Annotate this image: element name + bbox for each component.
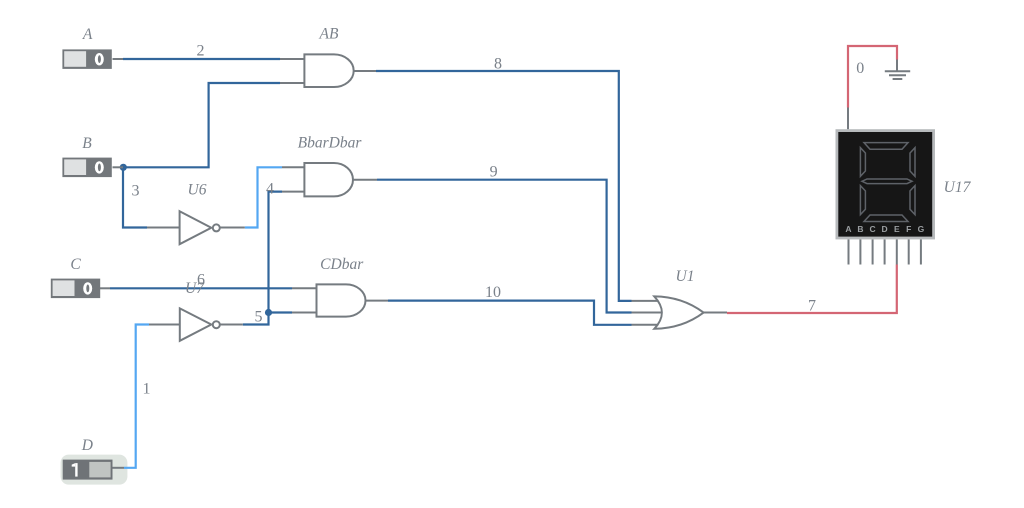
svg-text:BbarDbar: BbarDbar: [298, 135, 363, 152]
svg-text:B: B: [857, 224, 863, 234]
svg-text:D: D: [882, 224, 888, 234]
svg-text:4: 4: [266, 181, 274, 198]
svg-text:6: 6: [197, 272, 205, 289]
svg-text:U6: U6: [188, 182, 207, 199]
svg-text:10: 10: [485, 284, 501, 301]
svg-text:U17: U17: [944, 179, 972, 196]
svg-text:U1: U1: [676, 268, 695, 285]
svg-text:D: D: [81, 437, 93, 454]
svg-text:CDbar: CDbar: [320, 256, 364, 273]
svg-text:B: B: [82, 135, 92, 152]
svg-text:8: 8: [494, 56, 502, 73]
svg-text:G: G: [918, 224, 925, 234]
svg-text:1: 1: [143, 381, 151, 398]
svg-text:C: C: [870, 224, 876, 234]
svg-text:C: C: [70, 256, 81, 273]
svg-text:F: F: [906, 224, 911, 234]
svg-text:A: A: [845, 224, 851, 234]
svg-text:3: 3: [132, 183, 140, 200]
svg-text:A: A: [82, 26, 93, 43]
svg-text:9: 9: [490, 164, 498, 181]
svg-text:E: E: [894, 224, 900, 234]
svg-text:5: 5: [255, 309, 263, 326]
svg-text:0: 0: [856, 60, 864, 77]
svg-text:2: 2: [197, 43, 205, 60]
svg-text:AB: AB: [319, 26, 339, 43]
svg-text:7: 7: [808, 298, 816, 315]
